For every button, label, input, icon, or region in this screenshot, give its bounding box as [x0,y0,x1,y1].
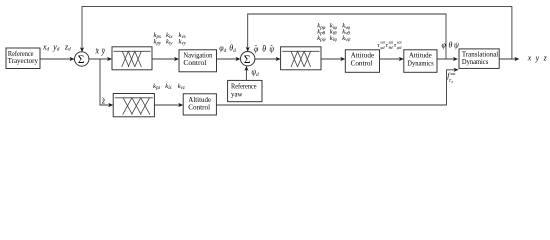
svg-text:Dynamics: Dynamics [462,57,488,66]
block Altitude Control [183,94,216,115]
svg-text:kvz: kvz [178,83,185,91]
wire sum 2 to fuzzy block 2 [255,57,281,61]
svg-text:z: z [543,53,547,62]
wire fuzzy 1 to Navigation Control [152,57,179,61]
svg-text:x: x [527,53,532,62]
fuzzy block 1 (navigation gains) [112,47,152,70]
block Attitude Dynamics [404,50,437,73]
svg-text:kiz: kiz [165,83,171,91]
svg-text:zd: zd [64,42,71,52]
label tau-sat-thetad [386,39,395,50]
svg-text:Control: Control [183,58,206,67]
label phid thetad [219,44,236,54]
wire sum 1 to fuzzy block 1 [89,57,112,61]
wire Attitude Dynamics to Translational Dynamics [437,57,458,61]
svg-text:θd: θd [389,45,394,50]
svg-text:θd: θd [229,44,236,54]
block Reference Trayectory [6,48,40,69]
labels kpx kix kvx [154,32,187,40]
labels kp-psi ki-psi kv-psi [317,35,351,43]
svg-text:kpz: kpz [153,83,160,91]
svg-text:Trayectory: Trayectory [8,56,39,65]
svg-text:Dynamics: Dynamics [407,58,433,67]
wire fuzzy 2 to Attitude Control [321,57,345,61]
label xd yd zd [42,42,71,52]
outer feedback wire (x y z back to sum 1) [80,7,512,59]
svg-text:xd: xd [42,42,50,52]
svg-text:ψd: ψd [251,68,259,78]
svg-text:θ: θ [449,40,453,49]
wire Attitude Control to Attitude Dynamics [380,57,404,61]
wire fuzzy 3 to Altitude Control [154,103,183,107]
wire Reference Trayectory to sum 1 [40,57,75,61]
block Attitude Control [345,50,379,73]
labels kp-phi ki-phi kv-phi [317,23,350,31]
summing junction 1 [75,52,89,66]
svg-text:sat: sat [450,71,456,76]
svg-text:ψd: ψd [397,45,402,50]
svg-text:Control: Control [351,58,373,67]
wire Reference yaw to sum 2 [244,66,248,81]
labels kpz kiz kvz [153,83,185,91]
fuzzy block 2 (attitude gains) [281,47,321,70]
label f-sat-Td [447,71,456,84]
label x y z [527,53,547,62]
wire Altitude Control to Translational Dynamics (thrust) [216,68,458,105]
svg-text:Σ: Σ [78,54,85,66]
wire branch z~ down to fuzzy block 3 [100,59,113,107]
svg-text:yd: yd [52,42,60,52]
block Reference yaw [228,80,262,101]
label z~ [101,96,105,105]
svg-text:φ: φ [442,40,447,49]
labels kpy kiy kvy [154,38,187,46]
wire Translational Dynamics output [499,57,519,61]
svg-text:Σ: Σ [244,54,251,66]
inner feedback wire (phi theta psi back to sum 2) [246,14,446,59]
svg-text:d: d [451,80,453,84]
svg-text:sat: sat [397,39,403,44]
svg-text:yaw: yaw [231,89,243,98]
label tau-sat-psid [394,39,403,50]
label x~ y~ [95,47,106,56]
labels kp-theta ki-theta kv-theta [317,29,350,37]
svg-text:y: y [535,53,540,62]
summing junction 2 [241,52,255,66]
svg-text:φd: φd [219,44,226,54]
label phi theta psi [442,40,461,49]
wire Navigation Control to sum 2 [217,57,241,61]
fuzzy block 3 (altitude gains) [113,94,154,117]
label tau-sat-phid [377,39,386,50]
block Translational Dynamics [459,49,499,69]
svg-text:Control: Control [188,103,210,112]
block Navigation Control [179,50,217,72]
svg-text:ψ: ψ [454,40,460,49]
label phi~ theta~ psi~ [254,44,275,54]
